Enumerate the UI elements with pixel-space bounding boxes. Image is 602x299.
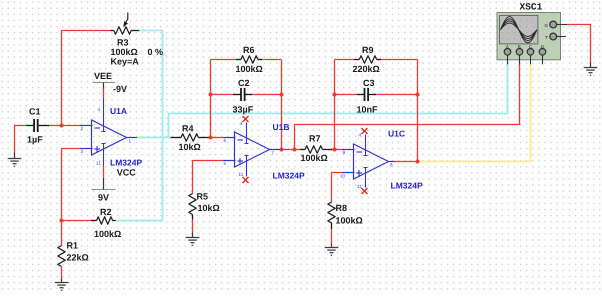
U1B bottom power pin stub	[246, 161, 248, 177]
wire C3 left	[335, 94, 358, 96]
oscilloscope XSC1	[497, 13, 561, 60]
svg-text:R7: R7	[309, 134, 321, 144]
node U1B output feedback junction	[280, 148, 284, 152]
svg-text:100kΩ: 100kΩ	[336, 216, 363, 226]
label U1C LM324P	[391, 181, 423, 191]
svg-text:Key=A: Key=A	[111, 57, 140, 67]
wire scope ground stub	[590, 62, 592, 68]
svg-text:220kΩ: 220kΩ	[353, 64, 380, 74]
svg-text:0 %: 0 %	[148, 47, 164, 57]
power supply VEE -9V	[93, 71, 128, 126]
svg-text:LM324P: LM324P	[273, 171, 305, 181]
wire U1C output	[395, 161, 418, 163]
wire C1 right to U1A minus input	[49, 125, 81, 127]
wire R6 top left	[211, 59, 236, 61]
svg-text:100kΩ: 100kΩ	[94, 229, 121, 239]
wire C3 right	[374, 94, 418, 96]
label XSC1	[520, 2, 543, 13]
resistor R1	[58, 241, 89, 267]
svg-text:R8: R8	[336, 203, 348, 213]
U1A pin numbers	[81, 107, 132, 166]
label U1A LM324P	[110, 158, 142, 168]
label U1B LM324P	[273, 171, 305, 181]
svg-text:C3: C3	[363, 78, 375, 88]
wire VCC to U1A V- pin	[103, 167, 105, 179]
wire R3 right to R2 right (cyan)	[116, 31, 163, 221]
svg-text:5: 5	[224, 161, 227, 166]
node C2 right junction	[280, 93, 284, 97]
resistor R6	[236, 45, 263, 74]
wire R8 bottom to ground	[331, 229, 333, 244]
wire R1 top	[61, 221, 63, 246]
svg-text:C2: C2	[238, 78, 250, 88]
resistor R4	[171, 124, 209, 153]
svg-text:11: 11	[239, 172, 244, 177]
ERC marker U1B top	[243, 116, 249, 122]
svg-text:C1: C1	[29, 107, 41, 117]
wire R1 ground stub	[61, 279, 63, 283]
svg-text:LM324P: LM324P	[391, 181, 423, 191]
svg-text:4: 4	[98, 107, 101, 112]
svg-text:1: 1	[129, 139, 132, 144]
svg-text:C: C	[529, 44, 532, 49]
capacitor C3	[357, 78, 379, 115]
svg-text:R4: R4	[182, 124, 194, 134]
wire R9 top right	[377, 59, 418, 61]
node C2 left junction	[209, 93, 213, 97]
resistor R7	[300, 134, 332, 164]
svg-text:10nF: 10nF	[357, 105, 379, 115]
U1B pin numbers	[224, 121, 275, 177]
svg-text:R5: R5	[197, 192, 209, 202]
svg-text:R9: R9	[362, 45, 374, 55]
wire R4/R6/C2 left vertical	[210, 60, 212, 138]
ground (C1 left)	[8, 158, 22, 160]
wire U1C output to scope ext trigger (yellow)	[418, 64, 531, 162]
XSC1 right terminals G and T	[545, 21, 568, 40]
svg-text:A: A	[506, 44, 509, 49]
U1C bottom power pin stub	[365, 173, 367, 188]
svg-text:U1B: U1B	[273, 122, 290, 132]
svg-text:100kΩ: 100kΩ	[301, 153, 328, 163]
op-amp U1B	[223, 132, 281, 167]
svg-text:B: B	[518, 44, 521, 49]
U1B top power pin stub	[246, 123, 248, 139]
wire R6/C2 right vertical to U1B output	[281, 60, 283, 150]
node C1/R3/U1A- junction	[60, 124, 64, 128]
svg-text:R2: R2	[100, 207, 112, 217]
resistor R2	[91, 207, 121, 239]
label U1A	[110, 106, 127, 116]
wire R8 ground stub	[331, 244, 333, 248]
svg-text:2: 2	[81, 126, 84, 131]
svg-text:6: 6	[224, 138, 227, 143]
node U1B output scope junction	[293, 148, 297, 152]
wire R9 top left	[335, 59, 355, 61]
wire R5 ground stub	[192, 233, 194, 238]
wire C2 right	[251, 94, 282, 96]
U1C pin numbers	[340, 133, 393, 190]
resistor R8	[328, 202, 363, 229]
potentiometer R3	[111, 13, 164, 67]
svg-text:9: 9	[343, 150, 346, 155]
ground (R5)	[186, 237, 200, 239]
wire U1B output to scope channel B	[295, 64, 520, 150]
wire R6 top right	[258, 59, 282, 61]
ground (R1)	[55, 282, 69, 284]
wire C2 left	[211, 94, 234, 96]
svg-text:T: T	[545, 35, 548, 40]
svg-text:3: 3	[81, 149, 84, 154]
wire VEE to U1A V+ pin	[103, 88, 105, 98]
node R1/R2/U1A+ junction	[60, 219, 64, 223]
ground (R8)	[325, 247, 339, 249]
svg-text:R6: R6	[243, 45, 255, 55]
capacitor C2	[233, 78, 254, 115]
power supply VCC 9V	[92, 149, 137, 203]
wire R1 bottom to ground	[61, 267, 63, 279]
XSC1 bottom terminals A B C D	[504, 44, 546, 64]
svg-text:33µF: 33µF	[233, 105, 254, 115]
wire R3 left vertical feedback	[62, 31, 111, 126]
svg-text:10kΩ: 10kΩ	[179, 142, 201, 152]
U1C top power pin stub	[365, 135, 367, 151]
wire C1 left to ground	[15, 126, 27, 153]
svg-text:R1: R1	[67, 241, 79, 251]
wire U1C plus input to R8	[332, 173, 343, 203]
wire U1A plus input to R1/R2 node	[62, 149, 81, 221]
svg-text:LM324P: LM324P	[110, 158, 142, 168]
ERC marker U1C bottom	[362, 188, 368, 194]
svg-text:10: 10	[340, 174, 346, 179]
svg-text:1µF: 1µF	[27, 135, 43, 145]
wire R9/C3 right vertical to U1C output	[417, 60, 419, 162]
wire U1B output	[281, 149, 300, 151]
svg-text:10kΩ: 10kΩ	[198, 203, 220, 213]
svg-text:VEE: VEE	[94, 71, 112, 81]
op-amp U1A	[80, 120, 137, 155]
label U1B	[273, 122, 290, 132]
svg-text:R3: R3	[117, 38, 129, 48]
svg-text:VCC: VCC	[117, 168, 137, 178]
ERC marker U1C top	[362, 128, 368, 134]
wire node to R2	[62, 220, 92, 222]
wire R5 bottom to ground	[192, 220, 194, 233]
wire R4 right to U1B minus input	[209, 137, 223, 139]
wire U1B plus input to R5	[193, 161, 224, 194]
svg-text:9V: 9V	[98, 193, 109, 203]
svg-text:XSC1: XSC1	[520, 2, 543, 13]
wire R7 right to U1C minus input	[332, 149, 342, 151]
node U1C output junction	[416, 160, 420, 164]
svg-text:22kΩ: 22kΩ	[67, 253, 89, 263]
wire U1A output to scope channel A (cyan)	[169, 64, 508, 138]
svg-text:4: 4	[359, 133, 362, 138]
svg-text:U1A: U1A	[110, 106, 127, 116]
ground (scope)	[584, 67, 598, 69]
resistor R9	[353, 45, 382, 74]
node R7/R9/C3 junction	[333, 148, 337, 152]
resistor R5	[189, 192, 220, 220]
wire R7/R9/C3 left vertical	[334, 60, 336, 150]
svg-text:100kΩ: 100kΩ	[236, 64, 263, 74]
wire scope G terminal to ground	[567, 25, 591, 63]
svg-text:D: D	[541, 44, 544, 49]
svg-text:U1C: U1C	[388, 129, 405, 139]
node R4/R6/C2 junction	[209, 136, 213, 140]
svg-text:G: G	[545, 23, 549, 28]
wire U1A output to R4 (cyan)	[137, 137, 170, 139]
node C3 right junction	[416, 93, 420, 97]
op-amp U1C	[342, 144, 395, 179]
svg-text:100kΩ: 100kΩ	[111, 47, 138, 57]
capacitor C1	[27, 107, 50, 145]
svg-text:8: 8	[390, 163, 393, 168]
svg-text:-9V: -9V	[113, 84, 127, 94]
svg-text:7: 7	[272, 151, 275, 156]
label U1C	[388, 129, 405, 139]
svg-text:11: 11	[96, 161, 101, 166]
wire C1 ground stub	[14, 153, 16, 159]
node C3 left junction	[333, 93, 337, 97]
ERC marker U1B bottom	[243, 177, 249, 183]
